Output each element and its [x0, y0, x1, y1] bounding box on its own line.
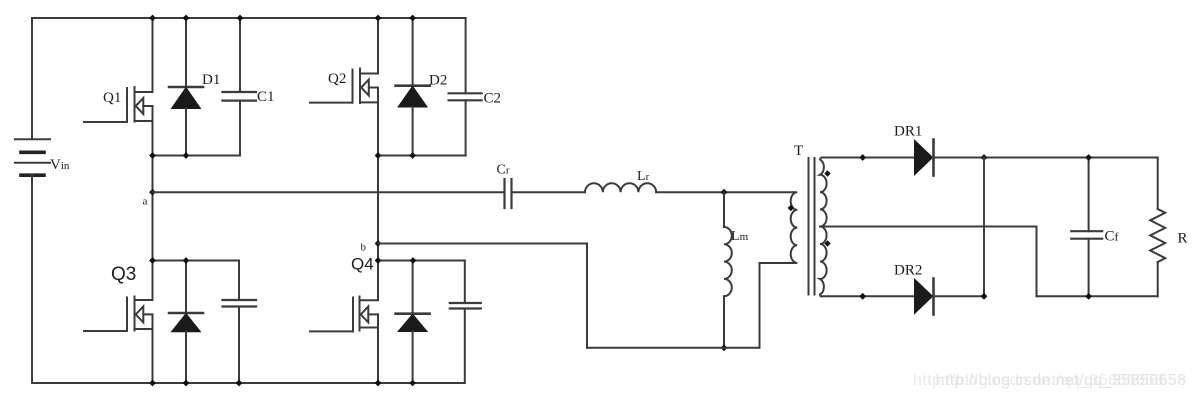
- diode D1: [169, 18, 220, 156]
- node Cf bottom: [1085, 293, 1092, 300]
- battery Vin: [15, 139, 70, 175]
- svg-text:T: T: [794, 143, 803, 159]
- transistor Q3: [84, 264, 153, 331]
- capacitor Cf: [1071, 158, 1118, 297]
- svg-text:Cf: Cf: [1105, 229, 1119, 245]
- diode DR2: [894, 263, 934, 315]
- capacitor C1: [223, 18, 275, 156]
- wire DR2 cathode to junction: [934, 295, 985, 297]
- svg-text:D2: D2: [429, 73, 447, 89]
- svg-text:C1: C1: [257, 89, 275, 105]
- wire Lm bottom to primary bottom: [724, 263, 794, 348]
- node Q3 crossbar leg: [149, 257, 156, 264]
- transformer secondary phase dot upper: [824, 170, 830, 176]
- svg-text:Lm: Lm: [731, 229, 749, 244]
- wire secondary bottom to DR2: [822, 295, 915, 297]
- svg-text:Cr: Cr: [497, 163, 510, 178]
- svg-text:Q4: Q4: [351, 255, 374, 274]
- node top rail D1: [183, 15, 190, 22]
- wire node a to Cr: [153, 191, 505, 193]
- svg-text:Lr: Lr: [637, 169, 650, 184]
- node Q1 crossbar leg: [149, 152, 156, 159]
- node bottom rail D4: [409, 380, 416, 387]
- transistor Q4: [310, 255, 378, 332]
- transistor Q2: [310, 69, 378, 104]
- wire leg2 top: [377, 18, 379, 74]
- wire secondary top to DR1: [822, 157, 915, 159]
- wire leg1 bottom: [152, 314, 154, 383]
- wire left rail upper: [31, 18, 33, 139]
- node top rail leg2: [375, 15, 382, 22]
- transformer T primary winding: [791, 143, 803, 263]
- svg-text:Vin: Vin: [50, 157, 70, 173]
- node secondary top: [859, 154, 866, 161]
- node Q4 crossbar D4: [410, 257, 417, 264]
- resistor R: [1150, 158, 1187, 297]
- svg-text:Q3: Q3: [111, 264, 136, 285]
- node a: [143, 189, 156, 208]
- diode DR1: [894, 124, 934, 176]
- node bottom rail leg2: [375, 380, 382, 387]
- inductor Lm: [724, 192, 749, 348]
- wire leg1 middle: [152, 106, 154, 300]
- wire center tap: [822, 227, 1037, 297]
- capacitor C2: [449, 18, 501, 156]
- transistor Q1: [84, 87, 153, 122]
- wire Q1 group lower crossbar: [153, 155, 241, 157]
- wire node b to bottom run: [378, 244, 724, 348]
- node Q3 crossbar D3: [183, 257, 190, 264]
- wire rectifier vertical connector: [983, 158, 985, 297]
- svg-text:D1: D1: [202, 72, 220, 88]
- node junction Lm top: [721, 189, 728, 196]
- node secondary bottom: [859, 293, 866, 300]
- watermark text: [913, 372, 1186, 389]
- wire leg2 middle: [377, 88, 379, 301]
- capacitor C3: [223, 261, 257, 384]
- node junction Lm bottom: [721, 344, 728, 351]
- wire DR1 to output top: [934, 157, 1158, 159]
- node Q2 crossbar leg: [375, 152, 382, 159]
- svg-text:R: R: [1178, 231, 1188, 247]
- capacitor C4: [450, 261, 481, 384]
- node b: [361, 240, 382, 253]
- node Cf top: [1085, 154, 1092, 161]
- svg-text:DR2: DR2: [894, 263, 922, 279]
- transformer primary phase dot: [788, 205, 794, 211]
- node Q1 crossbar D1: [183, 152, 190, 159]
- wire Lr to transformer primary: [656, 191, 793, 193]
- svg-text:C2: C2: [484, 91, 502, 107]
- transformer secondary phase dot lower: [824, 240, 830, 246]
- wire output bottom: [1037, 295, 1158, 297]
- inductor Lr: [585, 169, 656, 192]
- wire leg2 bottom: [377, 314, 379, 383]
- capacitor Cr: [497, 163, 512, 209]
- node bottom rail D3: [183, 380, 190, 387]
- wire Q2 group lower crossbar: [378, 155, 466, 157]
- svg-text:Q1: Q1: [103, 90, 121, 106]
- wire Cr to Lr: [512, 191, 586, 193]
- svg-text:http://blog.csdn.net/qq_358566: http://blog.csdn.net/qq_35856658: [936, 372, 1187, 389]
- node top rail D2: [409, 15, 416, 22]
- wire bottom rail: [32, 382, 465, 384]
- svg-text:b: b: [361, 242, 367, 254]
- node bottom rail C3: [236, 380, 243, 387]
- node DR1 cathode junction: [981, 154, 988, 161]
- node bottom rail leg1: [149, 380, 156, 387]
- node Q4 crossbar leg: [375, 257, 382, 264]
- wire Q4 group upper crossbar: [378, 260, 465, 262]
- wire top rail: [32, 17, 466, 19]
- diode D4: [396, 261, 430, 384]
- diode D3: [169, 261, 203, 384]
- wire leg1 top: [152, 18, 154, 92]
- svg-text:Q2: Q2: [328, 71, 346, 87]
- transformer core: [809, 158, 815, 295]
- wire left rail lower: [31, 175, 33, 383]
- svg-text:DR1: DR1: [894, 124, 922, 140]
- node top rail C1: [237, 15, 244, 22]
- svg-text:a: a: [143, 196, 148, 208]
- node top rail leg1: [149, 15, 156, 22]
- node Q2 crossbar D2: [409, 152, 416, 159]
- node DR2 cathode junction: [981, 293, 988, 300]
- transformer secondary winding bottom: [820, 227, 827, 297]
- wire Q3 group upper crossbar: [153, 260, 240, 262]
- diode D2: [396, 18, 448, 156]
- transformer secondary winding top: [820, 158, 827, 227]
